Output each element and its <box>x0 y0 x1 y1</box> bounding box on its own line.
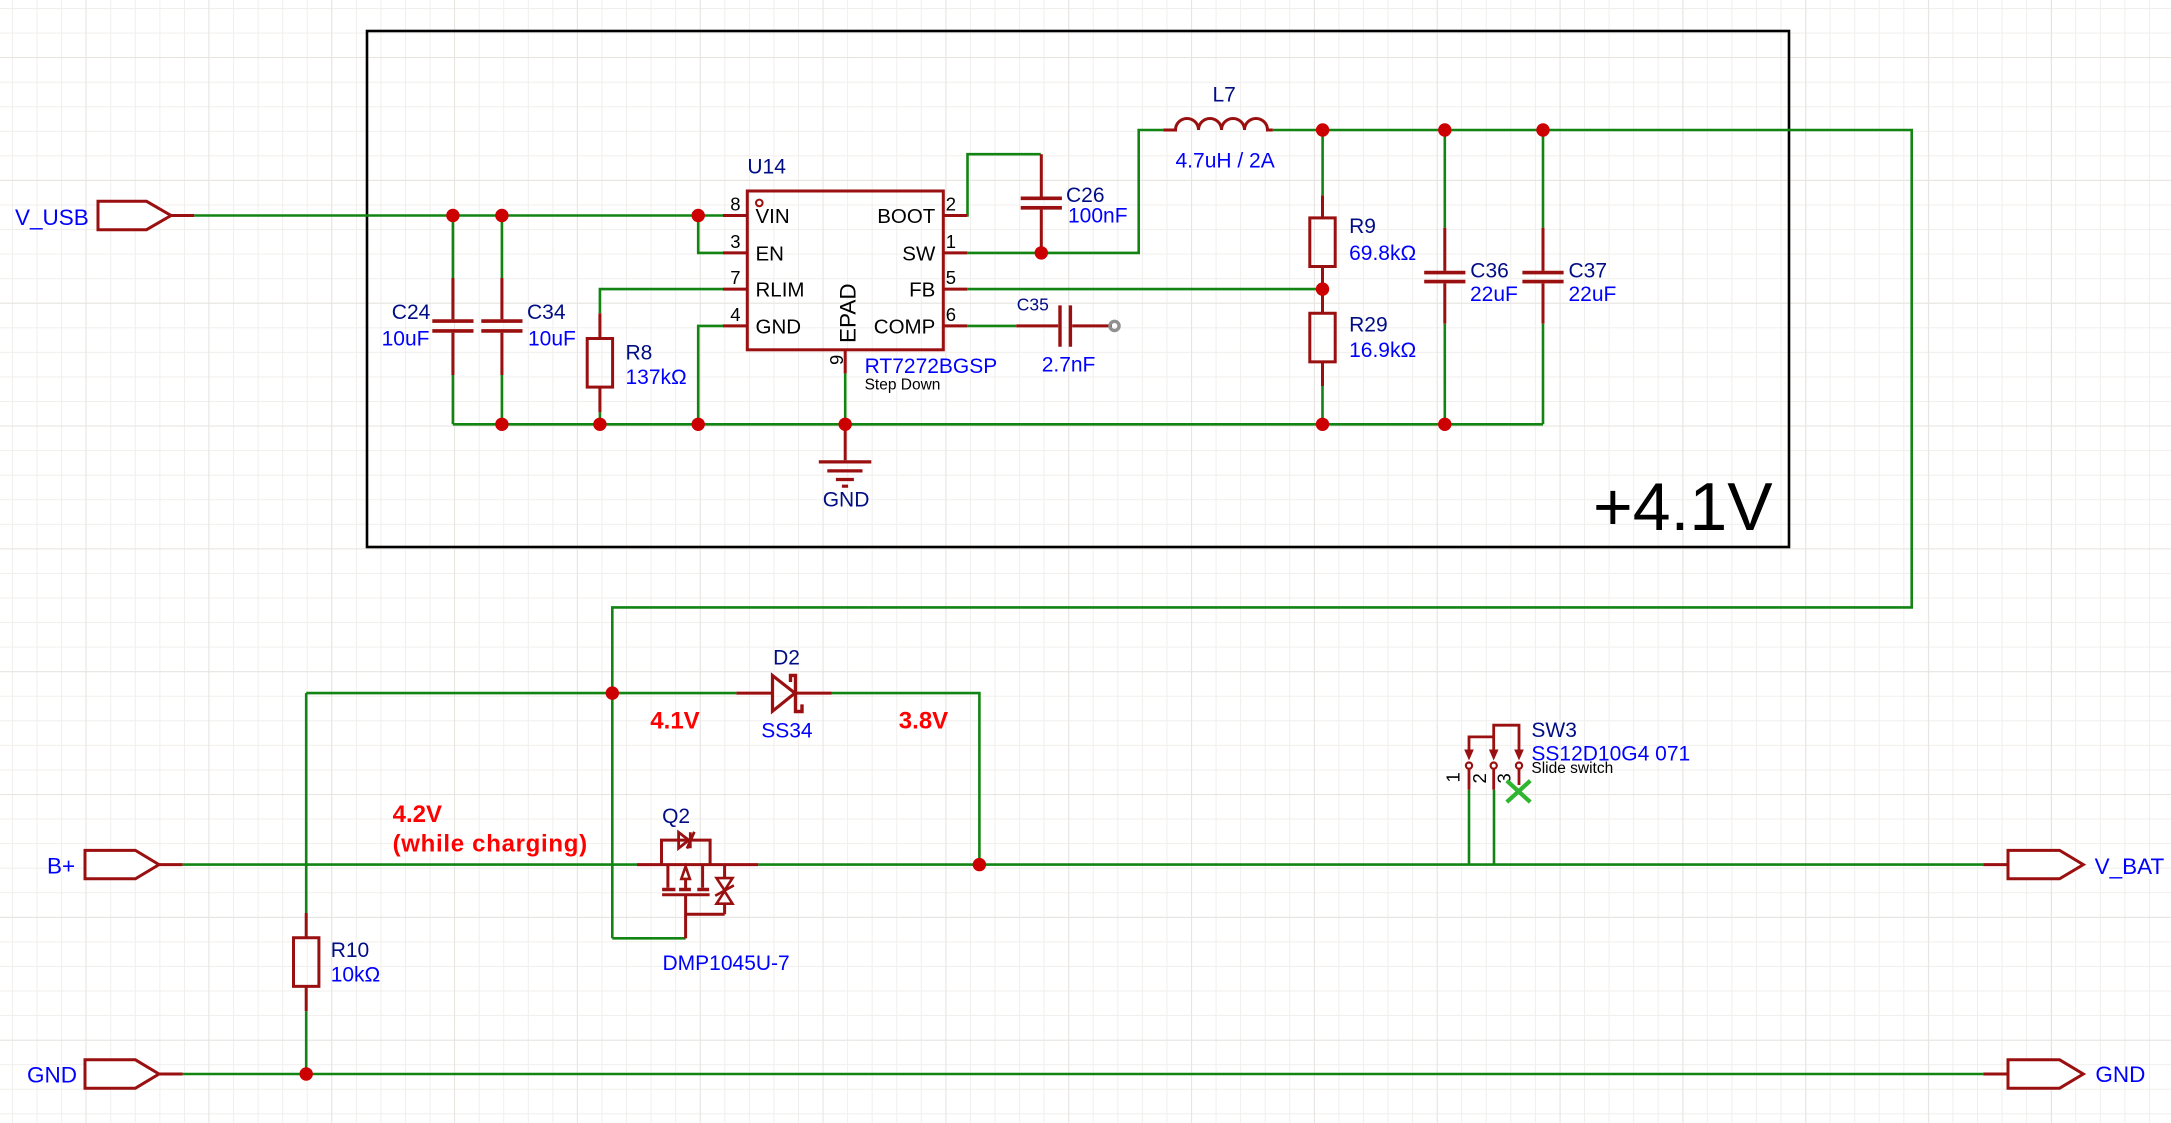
junction L7 out / R9 <box>1316 123 1329 136</box>
svg-text:3: 3 <box>1494 773 1515 783</box>
pin 8 VIN <box>723 193 790 228</box>
svg-text:Step Down: Step Down <box>865 376 941 393</box>
pin 3 EN <box>723 231 784 265</box>
no-connect marker at C35 <box>1110 321 1119 330</box>
wire R8 bottom <box>599 412 602 424</box>
wire R29 bottom <box>1321 386 1324 424</box>
wire Q2 gate <box>612 937 685 940</box>
svg-text:(while charging): (while charging) <box>393 830 588 857</box>
wire SW3 pin2 down <box>1493 790 1496 865</box>
resistor R29 16.9k <box>1310 289 1416 386</box>
diode D2 SS34 <box>736 646 831 742</box>
wire C37 branch <box>1542 130 1545 424</box>
svg-text:2: 2 <box>1469 773 1490 783</box>
wire GND net bottom <box>183 1073 1984 1076</box>
pin 7 RLIM <box>723 267 804 302</box>
svg-text:C34: C34 <box>527 301 566 324</box>
svg-text:+4.1V: +4.1V <box>1593 469 1773 545</box>
port GND (bottom left) <box>27 1060 183 1088</box>
wire C36 branch <box>1444 130 1447 424</box>
wire BOOT to C26 <box>967 154 1041 215</box>
svg-text:DMP1045U-7: DMP1045U-7 <box>663 952 790 975</box>
svg-text:4: 4 <box>730 304 740 325</box>
svg-text:3.8V: 3.8V <box>899 708 948 735</box>
svg-text:C36: C36 <box>1470 260 1509 283</box>
pin 2 BOOT <box>877 193 967 228</box>
capacitor C36 22uF <box>1424 228 1518 324</box>
svg-text:9: 9 <box>826 355 847 365</box>
junction +4.1V / C37 <box>1536 123 1549 136</box>
svg-text:V_BAT: V_BAT <box>2095 854 2165 879</box>
junction 4.1V node / D2 <box>606 686 619 699</box>
resistor R9 69.8k <box>1310 195 1416 289</box>
svg-text:2: 2 <box>946 193 956 214</box>
svg-text:D2: D2 <box>773 646 800 669</box>
svg-text:7: 7 <box>730 267 740 288</box>
svg-text:1: 1 <box>1443 772 1464 782</box>
svg-text:10uF: 10uF <box>528 328 576 351</box>
svg-text:VIN: VIN <box>756 205 790 228</box>
junction GND / R10 <box>300 1067 313 1080</box>
wire V_USB net to VIN <box>194 214 723 217</box>
svg-text:COMP: COMP <box>874 315 936 338</box>
svg-text:SW: SW <box>902 242 936 265</box>
IC U14 RT7272BGSP body <box>747 156 997 394</box>
frame: buck converter section box <box>367 31 1789 547</box>
resistor R8 137k <box>587 313 687 412</box>
svg-text:Slide switch: Slide switch <box>1531 760 1613 777</box>
svg-text:SW3: SW3 <box>1531 719 1577 742</box>
junction rail / C36 <box>1438 418 1451 431</box>
svg-text:GND: GND <box>823 489 870 512</box>
svg-text:BOOT: BOOT <box>877 205 936 228</box>
port V_BAT <box>1983 850 2164 879</box>
svg-text:U14: U14 <box>747 156 786 179</box>
svg-text:10kΩ: 10kΩ <box>331 963 381 986</box>
pin 5 FB <box>909 267 967 302</box>
junction rail / EPAD <box>839 418 852 431</box>
wire Q2 gate riser <box>611 693 614 938</box>
pin 6 COMP <box>874 304 968 339</box>
wire R9 top branch <box>1321 130 1324 195</box>
svg-text:16.9kΩ: 16.9kΩ <box>1349 339 1416 362</box>
wire FB net <box>967 288 1322 291</box>
port V_USB <box>15 201 194 230</box>
capacitor C34 10uF <box>481 278 576 375</box>
pin 9 EPAD <box>826 283 861 373</box>
junction rail / R29 <box>1316 418 1329 431</box>
svg-text:4.1V: 4.1V <box>650 708 699 735</box>
wire RLIM to R8 <box>600 289 723 313</box>
svg-text:GND: GND <box>756 315 802 338</box>
transistor Q2 DMP1045U-7 PMOS <box>637 805 790 975</box>
junction rail / GND pin <box>692 418 705 431</box>
svg-text:B+: B+ <box>47 853 75 878</box>
junction V_USB / EN <box>692 209 705 222</box>
svg-text:4.2V: 4.2V <box>393 801 442 828</box>
wire D2 cathode to B+ node <box>832 693 980 865</box>
no-connect X at SW3 pin 3 <box>1507 781 1531 802</box>
svg-text:RT7272BGSP: RT7272BGSP <box>865 355 998 378</box>
port GND (bottom right) <box>1983 1060 2145 1088</box>
resistor R10 10k <box>294 913 381 1011</box>
svg-text:10uF: 10uF <box>382 328 430 351</box>
wire R10 / gate pulldown vertical <box>305 693 308 1074</box>
svg-text:GND: GND <box>2095 1062 2145 1087</box>
svg-text:C24: C24 <box>392 301 431 324</box>
svg-text:SS34: SS34 <box>761 720 813 743</box>
svg-text:V_USB: V_USB <box>15 205 89 230</box>
svg-text:4.7uH / 2A: 4.7uH / 2A <box>1176 150 1275 173</box>
junction rail / R8 <box>593 418 606 431</box>
svg-text:R29: R29 <box>1349 314 1388 337</box>
svg-text:22uF: 22uF <box>1470 283 1518 306</box>
capacitor C35 2.7nF (horizontal) <box>1016 294 1112 376</box>
svg-text:69.8kΩ: 69.8kΩ <box>1349 242 1416 265</box>
svg-text:C37: C37 <box>1569 260 1608 283</box>
svg-text:8: 8 <box>730 193 740 214</box>
svg-text:GND: GND <box>27 1062 77 1087</box>
junction +4.1V / C36 <box>1438 123 1451 136</box>
svg-text:C35: C35 <box>1017 294 1049 314</box>
switch SW3 SS12D10G4 slide switch <box>1443 719 1691 790</box>
wire EPAD to rail <box>844 373 847 424</box>
wire V_BAT net <box>758 863 1983 866</box>
capacitor C26 100nF <box>1021 154 1128 253</box>
svg-text:6: 6 <box>946 304 956 325</box>
svg-text:EPAD: EPAD <box>836 283 861 343</box>
svg-text:137kΩ: 137kΩ <box>626 366 687 389</box>
svg-text:5: 5 <box>946 267 956 288</box>
svg-text:2.7nF: 2.7nF <box>1042 354 1096 377</box>
junction FB / divider <box>1316 282 1329 295</box>
wire 4.1V node horizontal <box>306 692 736 695</box>
svg-text:FB: FB <box>909 279 935 302</box>
svg-text:L7: L7 <box>1213 83 1236 106</box>
svg-text:22uF: 22uF <box>1569 283 1617 306</box>
wire L7 output / +4.1V feedback loop <box>612 130 1911 693</box>
svg-text:RLIM: RLIM <box>756 279 805 302</box>
wire EN branch <box>698 216 723 253</box>
wire COMP to C35 <box>967 325 1016 328</box>
wire SW3 pin1 down <box>1468 790 1471 865</box>
pin 4 GND <box>723 304 801 339</box>
capacitor C24 10uF <box>382 278 474 375</box>
wire B+ net <box>183 863 637 866</box>
svg-text:R8: R8 <box>626 342 653 365</box>
wire SW net <box>967 130 1163 253</box>
junction V_USB / C34 <box>495 209 508 222</box>
ground symbol GND <box>819 424 872 511</box>
junction SW / C26 <box>1035 246 1048 259</box>
svg-text:3: 3 <box>730 231 740 252</box>
port B+ <box>47 850 183 878</box>
wire C34 branch <box>501 216 504 425</box>
svg-text:100nF: 100nF <box>1068 204 1128 227</box>
svg-text:EN: EN <box>756 242 784 265</box>
wire C24 branch <box>452 216 455 425</box>
svg-text:Q2: Q2 <box>662 805 690 828</box>
svg-text:R10: R10 <box>331 939 370 962</box>
wire GND pin branch <box>698 326 723 424</box>
inductor L7 4.7uH <box>1163 83 1274 172</box>
junction D2 out / B+ <box>973 858 986 871</box>
wire ground rail of buck <box>453 423 1543 426</box>
junction rail / C34 <box>495 418 508 431</box>
svg-text:1: 1 <box>946 231 956 252</box>
svg-text:R9: R9 <box>1349 215 1376 238</box>
pin 1 SW <box>902 231 967 265</box>
capacitor C37 22uF <box>1522 228 1616 324</box>
junction V_USB / C24 <box>446 209 459 222</box>
